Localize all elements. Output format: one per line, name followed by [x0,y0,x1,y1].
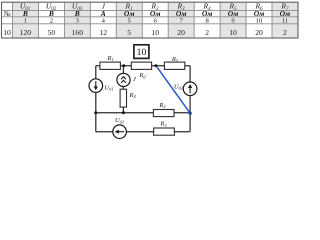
node B junction [155,64,158,67]
wire left [95,66,97,132]
svg-text:U01: U01 [104,84,113,91]
node C junction [189,112,192,115]
source U03 [113,125,127,139]
svg-text:160: 160 [72,28,84,37]
svg-text:№: № [4,10,11,18]
wire J-branch [122,66,124,113]
wire middle [96,112,190,114]
source U01 [89,79,103,93]
source U02 [183,82,197,96]
variant number box 10 [134,45,149,59]
svg-text:120: 120 [20,28,32,37]
svg-text:12: 12 [100,28,108,37]
svg-text:20: 20 [177,28,185,37]
units row [22,9,290,18]
svg-text:10: 10 [151,28,159,37]
svg-text:R1: R1 [106,55,113,62]
svg-text:10: 10 [3,28,11,37]
resistor R3 [154,128,175,135]
grid lines [2,2,299,38]
resistor R1 [100,62,121,69]
node A junction [122,64,125,67]
wire R7 blue link [157,67,190,113]
svg-text:U03: U03 [115,117,125,124]
wire right [189,66,191,132]
data row [3,28,287,37]
resistor R2 [153,110,174,117]
wire bottom [96,131,190,133]
header texts [4,2,289,18]
resistor R5 [164,62,184,69]
svg-text:2: 2 [283,28,287,37]
svg-text:5: 5 [127,28,131,37]
svg-text:50: 50 [48,28,56,37]
svg-text:R6: R6 [138,72,146,79]
svg-text:U02: U02 [174,83,184,90]
svg-text:R4: R4 [129,92,137,99]
svg-text:R2: R2 [158,102,166,109]
svg-text:11: 11 [282,18,288,25]
resistor R6 [131,62,151,69]
svg-text:R5: R5 [171,56,179,63]
svg-text:1: 1 [24,18,27,25]
svg-text:10: 10 [256,18,263,25]
svg-text:2: 2 [50,18,53,25]
node D junction [122,111,125,114]
svg-text:10: 10 [137,47,147,58]
svg-text:R3: R3 [159,121,167,128]
wire top [96,65,190,67]
circuit drawing [96,66,190,132]
svg-text:2: 2 [205,28,209,37]
svg-text:10: 10 [229,28,237,37]
svg-text:20: 20 [255,28,263,37]
numbers row [24,18,288,25]
parameter table [2,2,299,38]
current source J [117,73,130,86]
svg-text:J: J [133,76,137,83]
resistor R4 [120,89,126,107]
shaded columns [13,2,39,38]
node E junction [94,111,97,114]
